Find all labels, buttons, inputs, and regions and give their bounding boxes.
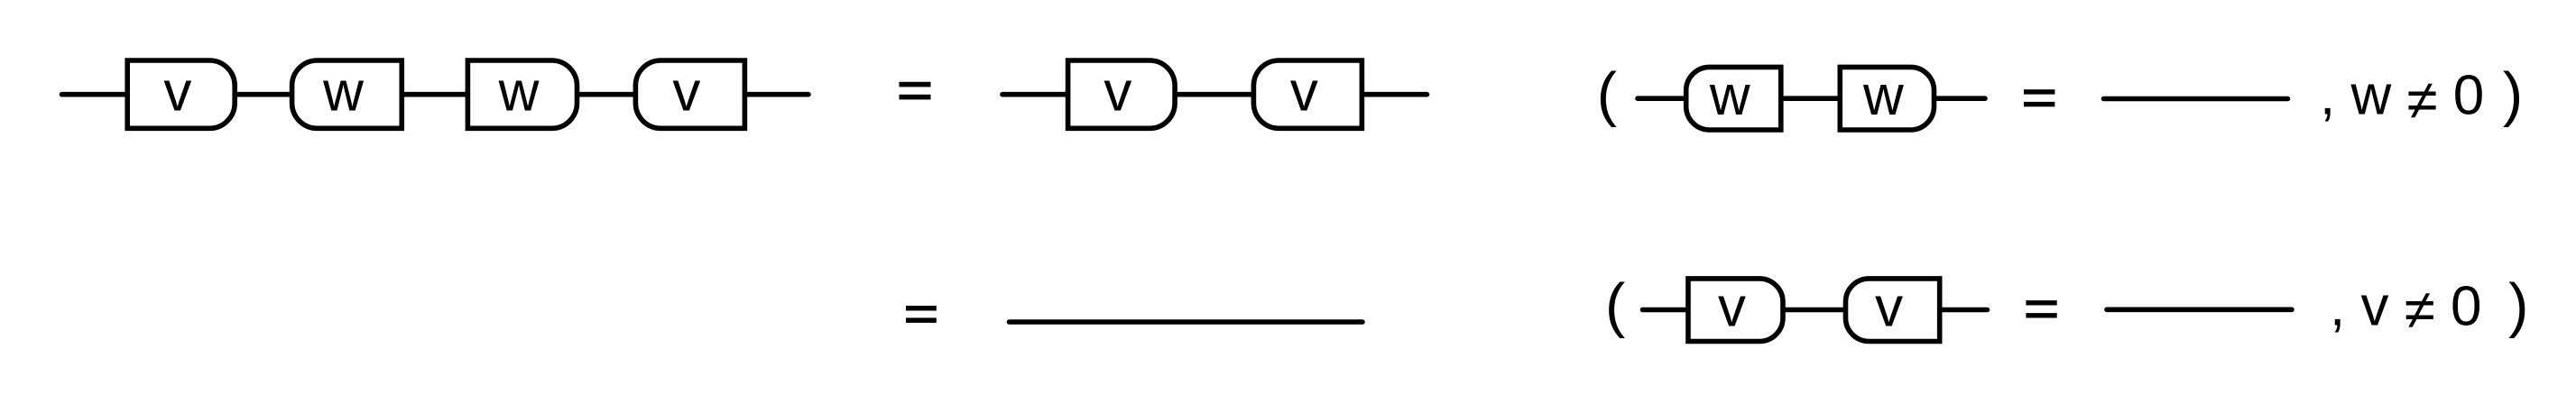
box v (row1 LHS 4th) <box>635 60 744 128</box>
wire row2 RHS (identity) <box>1010 319 1363 325</box>
box w (row1 cond 2nd) <box>1840 67 1934 130</box>
wire row1 condition RHS (identity) <box>2104 96 2288 102</box>
svg-text:v: v <box>1875 277 1903 339</box>
equals sign row1 main <box>900 82 931 87</box>
wire row1 condition LHS <box>1638 96 1985 101</box>
svg-text:v: v <box>1290 61 1318 124</box>
box v (row1 RHS 1st) <box>1068 60 1176 128</box>
wire row2 condition RHS (identity) <box>2107 307 2292 312</box>
box w (row1 LHS 3rd) <box>467 60 577 128</box>
svg-text:v: v <box>163 61 191 124</box>
wire row2 condition LHS <box>1643 308 1988 313</box>
box v (row1 LHS 1st) <box>127 60 235 128</box>
svg-text:(: ( <box>1605 271 1625 339</box>
svg-text:w: w <box>1862 65 1904 127</box>
equals sign row1 condition <box>2024 89 2054 94</box>
wire row1 LHS main <box>62 92 809 97</box>
svg-text:v: v <box>1103 61 1131 124</box>
svg-text:v: v <box>672 61 700 124</box>
svg-text:w: w <box>322 61 364 124</box>
svg-text:, w ≠ 0: , w ≠ 0 <box>2320 65 2484 133</box>
box w (row1 LHS 2nd) <box>292 60 402 128</box>
equals sign row2 condition <box>2026 300 2056 305</box>
svg-text:, v ≠ 0: , v ≠ 0 <box>2330 276 2481 342</box>
wire row1 RHS <box>1002 92 1427 97</box>
box w (row1 cond 1st) <box>1686 67 1781 130</box>
svg-text:w: w <box>498 61 540 124</box>
svg-text:w: w <box>1709 65 1750 127</box>
svg-text:(: ( <box>1597 60 1617 128</box>
svg-text:): ) <box>2508 271 2528 339</box>
box v (row2 cond 1st) <box>1688 279 1783 342</box>
svg-text:v: v <box>1718 277 1746 339</box>
svg-text:): ) <box>2503 60 2523 128</box>
box v (row1 RHS 2nd) <box>1253 60 1362 128</box>
equals sign row2 main <box>906 306 937 311</box>
box v (row2 cond 2nd) <box>1846 279 1940 342</box>
